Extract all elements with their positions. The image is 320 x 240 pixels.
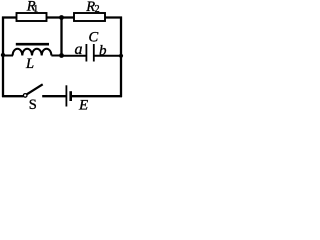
- wire: top left segment to R1: [2, 16, 17, 18]
- inductor L coil (4 arcs): [13, 49, 52, 56]
- battery E long plate: [65, 85, 67, 106]
- wire: branch from center node to capacitor: [62, 55, 87, 57]
- svg-text:L: L: [25, 56, 34, 72]
- wire: middle vertical from top junction to center node: [60, 18, 62, 56]
- switch S pivot circle: [23, 94, 27, 98]
- svg-text:2: 2: [95, 4, 100, 15]
- svg-text:C: C: [89, 30, 99, 46]
- wire: top between junction and R2: [62, 16, 75, 18]
- wire: right side vertical: [120, 17, 122, 98]
- svg-text:E: E: [78, 97, 88, 110]
- capacitor C plate a: [85, 44, 87, 62]
- svg-text:S: S: [29, 97, 37, 110]
- svg-text:1: 1: [33, 4, 38, 15]
- wire: left side vertical: [2, 17, 4, 98]
- resistor R2: [74, 13, 105, 21]
- resistor R1: [17, 13, 47, 21]
- svg-text:a: a: [75, 41, 83, 58]
- wire: bottom left segment to switch: [2, 95, 24, 97]
- switch S lever: [27, 84, 43, 94]
- node: left branch junction dot: [1, 53, 5, 57]
- wire: top between R1 and junction: [47, 16, 62, 18]
- wire: branch between coil and center node: [51, 55, 61, 57]
- capacitor C plate b: [93, 44, 95, 62]
- wire: branch left segment to coil: [3, 55, 13, 57]
- inductor L core bar: [16, 43, 49, 46]
- wire: bottom right segment from battery to corner: [72, 95, 122, 97]
- wire: branch from capacitor to right side: [94, 55, 121, 57]
- wire: bottom between switch and battery: [42, 95, 65, 97]
- wire: top right segment from R2 to corner: [105, 16, 122, 18]
- battery E short plate: [69, 91, 72, 101]
- node: right branch junction dot: [119, 54, 123, 58]
- node: top junction dot: [59, 15, 64, 20]
- node: center junction dot: [59, 53, 64, 58]
